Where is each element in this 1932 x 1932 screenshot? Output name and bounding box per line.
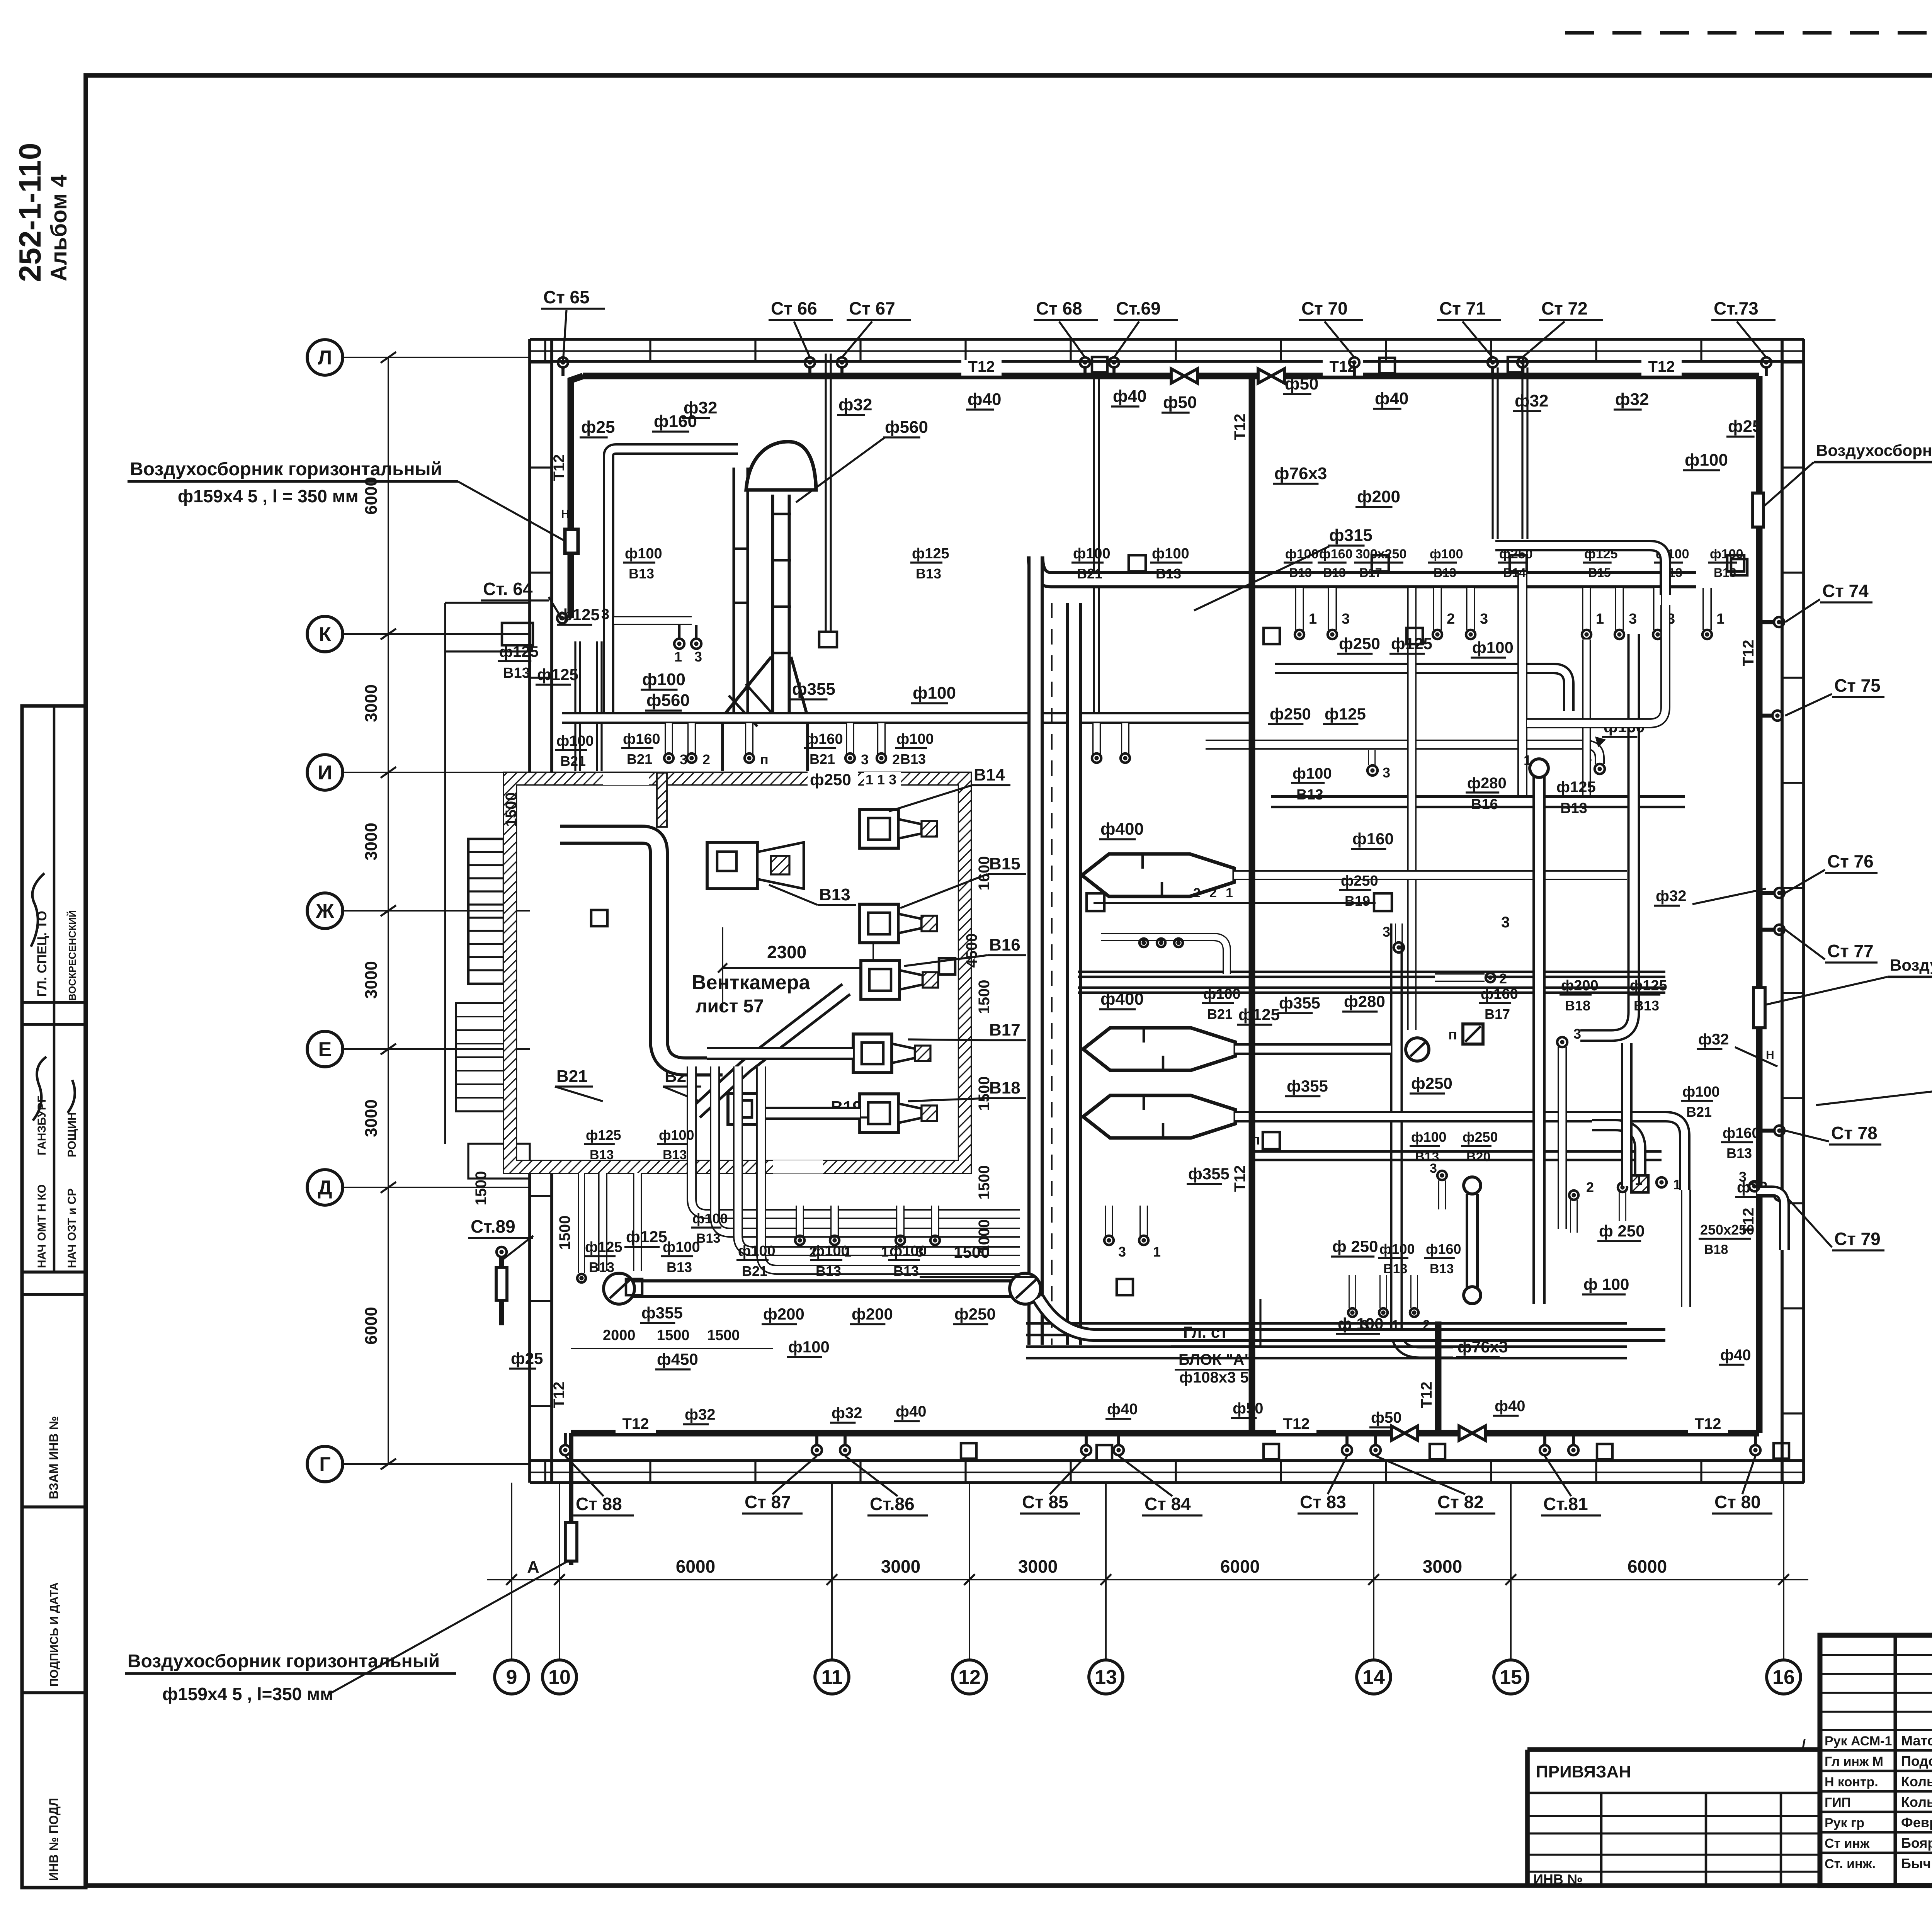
svg-text:Т12: Т12 <box>1648 358 1675 375</box>
svg-text:В19: В19 <box>1345 893 1370 909</box>
svg-text:В21: В21 <box>556 1067 588 1086</box>
svg-text:ф280: ф280 <box>1467 775 1507 792</box>
svg-text:ф200: ф200 <box>1357 487 1400 506</box>
svg-text:ф100: ф100 <box>1472 638 1514 656</box>
svg-text:ф160: ф160 <box>654 412 697 431</box>
svg-text:3: 3 <box>694 649 702 665</box>
svg-text:ф355: ф355 <box>641 1304 683 1322</box>
svg-text:Т12: Т12 <box>551 1382 568 1408</box>
svg-text:ф125: ф125 <box>558 605 600 624</box>
svg-text:Ст 70: Ст 70 <box>1301 298 1348 318</box>
bottom axis circles <box>495 1660 529 1694</box>
svg-text:Л: Л <box>318 347 332 369</box>
svg-text:В18: В18 <box>1704 1242 1728 1257</box>
svg-text:ф200: ф200 <box>763 1305 804 1323</box>
svg-text:ф250: ф250 <box>1270 705 1311 723</box>
top dashed fold line <box>1565 31 1932 34</box>
svg-text:ф25: ф25 <box>581 418 615 437</box>
svg-text:Ст 71: Ст 71 <box>1439 298 1486 318</box>
left axis circles <box>307 340 343 375</box>
svg-text:ф40: ф40 <box>1495 1398 1526 1415</box>
svg-text:В13: В13 <box>1296 787 1323 803</box>
svg-text:1500: 1500 <box>976 1165 993 1200</box>
svg-text:ф200: ф200 <box>1561 978 1599 994</box>
svg-text:Ст.89: Ст.89 <box>471 1216 515 1236</box>
svg-text:Г: Г <box>319 1453 330 1476</box>
svg-text:ф 100: ф 100 <box>1583 1275 1629 1293</box>
svg-text:Гл инж М: Гл инж М <box>1825 1754 1883 1769</box>
svg-text:РОЩИН: РОЩИН <box>66 1112 78 1157</box>
svg-text:3: 3 <box>1383 765 1390 781</box>
svg-text:ф160: ф160 <box>1426 1241 1461 1257</box>
svg-text:6000: 6000 <box>676 1556 715 1577</box>
svg-text:ф125: ф125 <box>1556 779 1596 796</box>
svg-text:Ст.73: Ст.73 <box>1714 298 1759 318</box>
svg-text:1: 1 <box>881 1244 889 1260</box>
svg-text:Воздухосборник горизонтальный: Воздухосборник горизонтальный ф159х4.5; … <box>1816 441 1932 459</box>
svg-text:1: 1 <box>1226 886 1233 900</box>
stub row under chamber <box>796 1206 804 1236</box>
silencer outlet runs <box>1234 870 1627 880</box>
svg-text:В21: В21 <box>1077 566 1102 582</box>
air collector on left T12 <box>565 529 578 553</box>
svg-text:Ст. инж.: Ст. инж. <box>1825 1857 1876 1871</box>
svg-text:ВЗАМ ИНВ №: ВЗАМ ИНВ № <box>47 1416 61 1499</box>
svg-text:В13: В13 <box>1289 566 1312 580</box>
svg-text:Кольцова: Кольцова <box>1901 1794 1932 1810</box>
f250 vertical right-mid <box>1396 923 1453 1352</box>
svg-text:ф250: ф250 <box>1341 873 1378 889</box>
svg-text:Е: Е <box>318 1038 332 1061</box>
svg-text:В13: В13 <box>589 1259 614 1275</box>
svg-text:1: 1 <box>1309 611 1317 627</box>
svg-text:ф100: ф100 <box>812 1243 849 1259</box>
svg-text:ф160: ф160 <box>623 731 660 747</box>
svg-text:ф100: ф100 <box>896 731 934 747</box>
svg-text:Ст 82: Ст 82 <box>1437 1492 1484 1512</box>
svg-text:15: 15 <box>1500 1666 1522 1689</box>
svg-text:ф400: ф400 <box>1100 990 1144 1009</box>
stubs bottom mid-right <box>1349 1275 1356 1308</box>
f250 run y1730 <box>1275 668 1569 711</box>
svg-text:В13: В13 <box>819 885 850 904</box>
svg-text:Ст 87: Ст 87 <box>745 1492 791 1512</box>
svg-text:2000: 2000 <box>603 1327 636 1344</box>
svg-text:В13: В13 <box>1560 800 1587 816</box>
f250/f125 run y2075 <box>1271 795 1685 808</box>
T12 drop bottom-left <box>569 1433 573 1565</box>
svg-text:Ст 83: Ст 83 <box>1300 1492 1346 1512</box>
svg-text:Т12: Т12 <box>622 1415 649 1432</box>
T12 right vertical <box>1756 376 1763 1433</box>
right quadrant extra ducts <box>1495 546 1665 595</box>
svg-text:3: 3 <box>1739 1169 1747 1185</box>
svg-text:ф125: ф125 <box>912 546 949 562</box>
svg-text:Венткамера: Венткамера <box>692 971 810 994</box>
f560 shoe transition <box>723 657 808 771</box>
svg-text:В16: В16 <box>989 935 1020 954</box>
ledge at bottom left <box>468 1144 530 1179</box>
svg-text:3000: 3000 <box>1423 1556 1462 1577</box>
svg-text:НАЧ ОЗТ и СР: НАЧ ОЗТ и СР <box>66 1188 78 1268</box>
svg-text:ф100: ф100 <box>625 546 662 562</box>
svg-text:В13: В13 <box>916 566 941 582</box>
svg-text:В13: В13 <box>1156 566 1181 582</box>
svg-text:Февралева: Февралева <box>1901 1815 1932 1830</box>
svg-text:ИНВ № ПОДЛ: ИНВ № ПОДЛ <box>47 1798 61 1881</box>
svg-text:3: 3 <box>1629 611 1637 627</box>
svg-text:ф160: ф160 <box>1319 547 1352 561</box>
svg-text:ф159х4 5 , l=350 мм: ф159х4 5 , l=350 мм <box>162 1684 333 1704</box>
riser stubs row y1560 <box>1295 588 1304 630</box>
svg-text:1500: 1500 <box>976 1077 993 1111</box>
svg-text:НАЧ ОМТ Н КО: НАЧ ОМТ Н КО <box>36 1184 48 1268</box>
svg-text:В21: В21 <box>560 753 586 769</box>
svg-text:12: 12 <box>958 1666 981 1689</box>
silencers <box>1082 854 1234 896</box>
svg-text:ф160: ф160 <box>1723 1125 1760 1141</box>
svg-text:ф125: ф125 <box>1325 705 1366 723</box>
svg-text:1500: 1500 <box>954 1243 990 1261</box>
svg-text:В13: В13 <box>1434 566 1456 580</box>
svg-text:2300: 2300 <box>767 942 806 962</box>
svg-text:ф125: ф125 <box>499 643 539 660</box>
svg-text:В21: В21 <box>1207 1006 1233 1022</box>
svg-text:ф125: ф125 <box>586 1127 621 1143</box>
fans B14-B18 in chamber <box>860 810 898 848</box>
f32 drop pipe pair mid (St68/69) <box>1093 373 1095 713</box>
B13 unit inside chamber top <box>707 842 757 889</box>
svg-text:ф355: ф355 <box>1287 1077 1328 1095</box>
svg-text:ВОСКРЕСЕНСКИЙ: ВОСКРЕСЕНСКИЙ <box>66 910 78 1001</box>
svg-text:ф200: ф200 <box>852 1305 893 1323</box>
svg-text:3: 3 <box>1342 611 1350 627</box>
svg-text:ф32: ф32 <box>1656 888 1687 905</box>
svg-text:В13: В13 <box>1415 1150 1439 1164</box>
svg-text:В21: В21 <box>742 1263 767 1279</box>
svg-text:3: 3 <box>601 606 609 622</box>
outer stair block left <box>468 839 504 984</box>
svg-text:Альбом 4: Альбом 4 <box>46 175 71 281</box>
svg-text:ф100: ф100 <box>1203 986 1241 1002</box>
svg-text:ПОДПИСЬ И ДАТА: ПОДПИСЬ И ДАТА <box>48 1582 61 1687</box>
svg-text:ф25: ф25 <box>1728 417 1762 436</box>
svg-text:ф355: ф355 <box>1279 994 1320 1012</box>
right risers <box>1774 617 1784 627</box>
chamber internal ducts <box>560 835 659 1039</box>
svg-text:п: п <box>760 752 769 767</box>
ledge at K axis <box>502 623 533 645</box>
svg-text:Ст 72: Ст 72 <box>1541 298 1588 318</box>
svg-text:В17: В17 <box>1359 566 1382 580</box>
svg-text:Т12: Т12 <box>1231 1165 1248 1192</box>
svg-text:2: 2 <box>1209 886 1217 900</box>
svg-text:Матоян: Матоян <box>1901 1733 1932 1748</box>
svg-text:3: 3 <box>1118 1244 1126 1260</box>
ducts dropping below chamber <box>692 1066 1020 1214</box>
f160 run y1927 <box>1206 745 1600 764</box>
svg-text:ф108х3 5: ф108х3 5 <box>1179 1369 1249 1386</box>
svg-text:В13: В13 <box>590 1148 614 1162</box>
svg-text:Ст 76: Ст 76 <box>1827 851 1874 871</box>
svg-text:ф100: ф100 <box>659 1127 694 1143</box>
svg-text:ф 250: ф 250 <box>1332 1237 1378 1255</box>
svg-text:В13: В13 <box>1726 1145 1752 1161</box>
svg-text:6000: 6000 <box>362 1307 381 1345</box>
svg-text:Н контр.: Н контр. <box>1825 1775 1878 1789</box>
svg-text:В13: В13 <box>1323 566 1346 580</box>
T12 top main <box>583 373 1171 379</box>
svg-text:1500: 1500 <box>556 1216 573 1250</box>
svg-text:ф560: ф560 <box>885 418 928 437</box>
svg-text:ф315: ф315 <box>1329 526 1372 545</box>
svg-text:В13: В13 <box>900 751 926 767</box>
svg-text:В17: В17 <box>989 1020 1020 1039</box>
svg-text:Ст 84: Ст 84 <box>1145 1494 1191 1514</box>
svg-text:ф40: ф40 <box>968 390 1001 409</box>
svg-text:ф32: ф32 <box>838 395 872 414</box>
svg-text:ф100: ф100 <box>1682 1084 1720 1100</box>
thin rod y2337 <box>1094 902 1376 904</box>
svg-text:В15: В15 <box>1588 566 1611 580</box>
f280 vertical right <box>1580 634 1634 1036</box>
vent chamber hatched walls <box>504 773 971 1173</box>
svg-text:2: 2 <box>1193 886 1201 900</box>
svg-text:Подольский: Подольский <box>1901 1753 1932 1769</box>
svg-text:Ст.81: Ст.81 <box>1543 1494 1588 1514</box>
svg-text:ф76х3: ф76х3 <box>1274 464 1327 483</box>
svg-text:14: 14 <box>1362 1666 1385 1689</box>
svg-text:1500: 1500 <box>503 793 520 827</box>
svg-text:ф100: ф100 <box>663 1239 700 1255</box>
svg-text:В13: В13 <box>503 665 530 681</box>
svg-text:Ст 74: Ст 74 <box>1822 581 1869 601</box>
svg-text:В14: В14 <box>1503 566 1526 580</box>
svg-text:ф100: ф100 <box>1411 1129 1447 1145</box>
B19 fan <box>728 1094 761 1124</box>
svg-text:Т12: Т12 <box>1418 1382 1435 1408</box>
chamber door gaps <box>603 773 649 785</box>
svg-text:В16: В16 <box>1471 796 1498 813</box>
vertical ducts right quadrant down to y2075 <box>1517 572 1527 795</box>
square boxes scattered <box>591 910 607 926</box>
svg-text:Ст 75: Ст 75 <box>1834 675 1881 696</box>
svg-text:1 1 3: 1 1 3 <box>866 772 896 787</box>
svg-text:п: п <box>1251 1132 1260 1148</box>
svg-text:3: 3 <box>861 752 869 767</box>
svg-text:ф40: ф40 <box>1720 1347 1751 1364</box>
svg-text:Т12: Т12 <box>1695 1415 1721 1432</box>
svg-text:Ст 65: Ст 65 <box>543 287 590 307</box>
T12 bottom main <box>571 1430 1391 1437</box>
svg-text:ф100: ф100 <box>788 1338 830 1356</box>
svg-text:1: 1 <box>1673 1177 1681 1192</box>
svg-text:В13: В13 <box>663 1148 687 1162</box>
bottom risers <box>560 1445 570 1455</box>
svg-text:ф32: ф32 <box>832 1405 862 1422</box>
svg-text:В13: В13 <box>1634 998 1659 1014</box>
svg-text:ф250: ф250 <box>1463 1129 1498 1145</box>
svg-text:В18: В18 <box>989 1078 1020 1097</box>
svg-text:2: 2 <box>892 752 900 767</box>
double lines y2515/2560 <box>1078 971 1665 973</box>
svg-text:ф50: ф50 <box>1233 1400 1264 1417</box>
svg-text:2: 2 <box>1586 1179 1594 1195</box>
branch f100 B21 y2420 <box>1101 937 1227 974</box>
svg-text:ф32: ф32 <box>1515 391 1548 410</box>
svg-text:1500: 1500 <box>657 1327 690 1344</box>
svg-text:В15: В15 <box>989 854 1020 873</box>
svg-text:1500: 1500 <box>473 1171 490 1206</box>
svg-text:Кольцова: Кольцова <box>1901 1774 1932 1789</box>
svg-text:ф 250: ф 250 <box>1599 1222 1645 1240</box>
svg-text:250х250: 250х250 <box>1700 1222 1754 1238</box>
svg-text:Т12: Т12 <box>1740 640 1757 667</box>
svg-text:В14: В14 <box>974 765 1005 784</box>
svg-text:ф160: ф160 <box>1481 986 1518 1002</box>
svg-text:2: 2 <box>702 752 710 767</box>
chamber inner partition stub <box>657 773 667 827</box>
svg-text:1: 1 <box>1524 752 1531 768</box>
svg-text:ф40: ф40 <box>1107 1401 1138 1418</box>
svg-text:В13: В13 <box>1383 1262 1407 1276</box>
svg-text:В21: В21 <box>810 751 835 767</box>
svg-text:ф100: ф100 <box>642 670 685 689</box>
svg-text:Ст инж: Ст инж <box>1825 1836 1870 1851</box>
svg-text:ф400: ф400 <box>1100 820 1144 838</box>
top risers <box>558 357 568 367</box>
main wide duct bottom-left <box>619 1279 1023 1298</box>
f560 main exhaust duct <box>733 468 749 717</box>
building outer walls with panel pattern <box>530 338 1804 341</box>
T12 left segment to St.64 <box>571 376 583 618</box>
svg-text:И: И <box>318 762 332 784</box>
f160 U-duct right quadrant <box>1527 605 1665 723</box>
svg-text:ф100: ф100 <box>1285 547 1318 561</box>
svg-text:В17: В17 <box>1485 1006 1510 1022</box>
supply run to right <box>1036 556 1696 580</box>
svg-text:1: 1 <box>1596 611 1604 627</box>
svg-text:3: 3 <box>1573 1026 1581 1042</box>
svg-text:ф100: ф100 <box>1152 546 1189 562</box>
svg-text:ф125: ф125 <box>1630 978 1667 994</box>
svg-text:ф250: ф250 <box>1411 1074 1452 1092</box>
svg-text:БЛОК "А": БЛОК "А" <box>1179 1351 1252 1368</box>
svg-text:2: 2 <box>1423 1318 1430 1332</box>
air collector right T12 upper <box>1753 493 1764 527</box>
svg-text:В13: В13 <box>1714 566 1736 580</box>
svg-text:Ст 67: Ст 67 <box>849 298 895 318</box>
svg-text:ПРИВЯЗАН: ПРИВЯЗАН <box>1536 1762 1631 1781</box>
svg-text:1500: 1500 <box>976 980 993 1014</box>
svg-text:1500: 1500 <box>707 1327 740 1344</box>
wall elbow duct <box>1757 1191 1784 1250</box>
svg-text:2: 2 <box>1499 971 1507 986</box>
svg-text:Т12: Т12 <box>551 454 568 481</box>
svg-text:ф40: ф40 <box>1375 389 1408 408</box>
svg-text:ф250: ф250 <box>810 770 851 789</box>
svg-text:ф100: ф100 <box>1293 765 1332 782</box>
svg-text:В21: В21 <box>1686 1104 1712 1120</box>
svg-text:ф32: ф32 <box>685 1406 716 1423</box>
svg-text:Ст 68: Ст 68 <box>1036 298 1082 318</box>
svg-text:6000: 6000 <box>1220 1556 1260 1577</box>
svg-text:ф50: ф50 <box>1163 393 1197 412</box>
svg-text:11: 11 <box>821 1666 843 1689</box>
f280 continuation down <box>1621 1043 1633 1186</box>
svg-text:Ст 66: Ст 66 <box>771 298 817 318</box>
svg-text:Н: Н <box>561 508 570 520</box>
svg-text:К: К <box>319 623 331 646</box>
svg-text:ф100: ф100 <box>738 1243 776 1259</box>
title block main <box>1820 1635 1932 1886</box>
svg-text:Ст 88: Ст 88 <box>576 1494 622 1514</box>
svg-text:ф159х4 5 , l = 350 мм: ф159х4 5 , l = 350 мм <box>178 486 359 506</box>
svg-text:ф40: ф40 <box>1113 387 1146 406</box>
svg-text:ф25: ф25 <box>511 1349 543 1367</box>
lower-left pipes going down from chamber <box>598 1173 607 1271</box>
svg-text:Рук гр: Рук гр <box>1825 1816 1864 1830</box>
svg-text:В13: В13 <box>816 1263 841 1279</box>
svg-text:ф250: ф250 <box>1339 634 1380 653</box>
svg-text:Т12: Т12 <box>1283 1415 1310 1432</box>
svg-text:3: 3 <box>1480 611 1488 627</box>
svg-text:10: 10 <box>548 1666 571 1689</box>
f32 drop pipe with plug <box>825 354 827 634</box>
svg-text:ф125: ф125 <box>626 1228 667 1246</box>
svg-text:ф100: ф100 <box>889 1243 927 1259</box>
svg-text:1: 1 <box>674 649 682 665</box>
svg-text:252-1-110: 252-1-110 <box>13 143 47 282</box>
svg-text:Ст.86: Ст.86 <box>870 1494 915 1514</box>
thin exhaust lines y2980 <box>1252 1150 1662 1153</box>
svg-text:1: 1 <box>1716 611 1725 627</box>
svg-text:В18: В18 <box>1565 998 1590 1014</box>
svg-text:ф76х3: ф76х3 <box>1458 1338 1508 1356</box>
left margin stamp strip <box>22 706 86 1888</box>
svg-text:ф32: ф32 <box>1615 390 1649 409</box>
svg-text:Ст 85: Ст 85 <box>1022 1492 1068 1512</box>
svg-text:ф100: ф100 <box>1430 547 1463 561</box>
svg-text:3000: 3000 <box>1018 1556 1058 1577</box>
svg-text:ф160: ф160 <box>1352 830 1394 848</box>
svg-text:Ст.69: Ст.69 <box>1116 298 1161 318</box>
svg-text:ф560: ф560 <box>646 691 690 710</box>
svg-text:В20: В20 <box>1466 1150 1490 1164</box>
svg-text:Ст 80: Ст 80 <box>1714 1492 1761 1512</box>
svg-text:9: 9 <box>506 1666 517 1689</box>
svg-text:лист 57: лист 57 <box>696 996 764 1017</box>
svg-text:1600: 1600 <box>976 856 993 891</box>
svg-text:Воздухосборник горизонтальный: Воздухосборник горизонтальный <box>130 459 442 480</box>
svg-text:3000: 3000 <box>881 1556 920 1577</box>
privyazan table <box>1525 1750 1530 1886</box>
svg-text:3000: 3000 <box>362 1099 381 1137</box>
horizontal f355 run above chamber <box>562 712 1251 724</box>
svg-text:Боярская: Боярская <box>1901 1835 1932 1851</box>
svg-text:3000: 3000 <box>362 823 381 861</box>
svg-text:ф280: ф280 <box>1344 992 1385 1010</box>
air collector right T12 lower <box>1753 988 1765 1028</box>
svg-text:ф160: ф160 <box>806 731 843 747</box>
svg-text:Ж: Ж <box>316 900 335 922</box>
svg-text:ф100: ф100 <box>913 684 956 702</box>
svg-text:1: 1 <box>1635 1172 1643 1188</box>
svg-text:В13: В13 <box>893 1263 919 1279</box>
svg-text:ф100: ф100 <box>556 733 594 749</box>
svg-text:3000: 3000 <box>362 684 381 722</box>
bottom horizontal thin band right half <box>1026 1322 1627 1325</box>
